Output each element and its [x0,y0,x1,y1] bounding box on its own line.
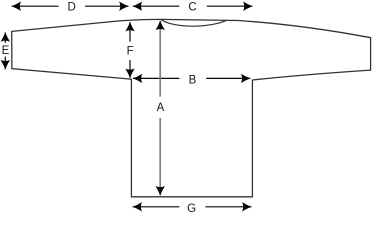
front neck curve [161,20,226,27]
svg-text:G: G [187,203,196,215]
svg-text:A: A [157,102,165,114]
garment body outline [12,19,371,196]
svg-text:C: C [188,2,196,14]
dimension arrow B (chest width) [133,77,180,79]
dimension arrow C (top right) [133,5,180,7]
dimension arrow G (hem width) [133,206,180,208]
dimension arrow E (left cuff height) [4,32,6,42]
svg-text:B: B [189,75,197,87]
svg-text:F: F [127,46,134,58]
svg-text:E: E [2,45,10,57]
dimension arrow A (body length, gray shaft) [159,21,161,97]
svg-text:D: D [67,2,75,14]
dimension arrow D (top left) [12,5,59,7]
dimension arrow F (armhole depth) [129,22,131,42]
